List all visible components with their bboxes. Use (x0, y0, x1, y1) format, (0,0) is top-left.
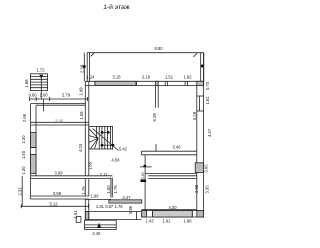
svg-text:0.87: 0.87 (105, 204, 114, 209)
svg-text:1.72: 1.72 (37, 68, 46, 73)
chimney box right (195, 163, 203, 173)
dim 2.40 (92, 231, 101, 236)
svg-text:1.86: 1.86 (184, 218, 193, 223)
porch arrow (97, 223, 101, 228)
svg-text:1.68: 1.68 (79, 111, 84, 120)
wall right room north band (148, 175, 197, 177)
dim chain right labels (194, 81, 212, 193)
svg-text:3.15: 3.15 (113, 75, 122, 80)
dim 5.42 (119, 147, 128, 152)
stair S2 beam upper (102, 131, 108, 133)
dim 1.88 (24, 79, 29, 88)
svg-text:2.39: 2.39 (79, 64, 84, 73)
dim 1.85 (87, 161, 92, 170)
svg-text:1.81: 1.81 (205, 96, 210, 105)
svg-text:1.96: 1.96 (91, 194, 100, 199)
svg-text:1.49: 1.49 (79, 87, 84, 96)
dim 4.58 (112, 158, 121, 163)
stair S2 winder box (89, 126, 113, 149)
dim tick 3.46 (155, 144, 157, 151)
dim tick right of 8.80 (193, 53, 197, 57)
svg-text:1.24: 1.24 (86, 75, 95, 80)
dim 2.11 (100, 172, 108, 177)
dim 4.30 with line (169, 205, 178, 210)
svg-text:4.03: 4.03 (78, 143, 83, 152)
svg-text:1.00: 1.00 (40, 93, 49, 98)
svg-text:3.46: 3.46 (173, 145, 182, 150)
svg-text:5.12: 5.12 (50, 202, 59, 207)
stair S1 direction line with arrow (40, 75, 42, 99)
stair S2 diagonal (93, 129, 119, 151)
dim line row 0.60 1.00 2.79 (30, 98, 88, 100)
svg-text:0.60: 0.60 (29, 93, 38, 98)
svg-text:1.60: 1.60 (21, 150, 26, 159)
wall right outer (196, 86, 198, 212)
svg-text:1.81: 1.81 (96, 204, 105, 209)
svg-text:2.18: 2.18 (142, 75, 151, 80)
svg-text:2.11: 2.11 (100, 172, 108, 177)
svg-text:1.51: 1.51 (165, 75, 174, 80)
svg-text:1.60: 1.60 (106, 185, 111, 194)
dim line 2.33 (21, 176, 23, 206)
dim line 2.39 left with dot (83, 53, 85, 82)
wall hall south y177 (31, 175, 113, 177)
wall left wing west (30, 104, 32, 199)
svg-text:0.70: 0.70 (205, 81, 210, 90)
dim 0.60 center tiny (141, 172, 145, 179)
svg-text:2.79: 2.79 (62, 93, 71, 98)
dim dot pier center (143, 165, 146, 168)
wall main left (84, 86, 86, 176)
window top 2.18 (136, 81, 138, 85)
dim 1.68 (79, 111, 84, 120)
pier at interior wall (155, 81, 158, 85)
pier bottom right corner (197, 211, 204, 217)
dim 1.75 near main wall (81, 186, 86, 195)
svg-text:1.88: 1.88 (24, 79, 29, 88)
wire veranda top line (87, 52, 204, 54)
svg-text:2.40: 2.40 (92, 231, 101, 236)
window top 1.92 jambs (184, 81, 186, 85)
dim 6.29 (152, 113, 157, 122)
dim chain west labels (18, 113, 28, 195)
window bottom right gray (152, 211, 154, 217)
svg-text:1.30: 1.30 (21, 166, 26, 175)
wall veranda right (200, 53, 202, 82)
window west gap jambs (31, 147, 36, 149)
stair S2 steps vertical (96, 126, 98, 138)
stair S2 beam lower (102, 144, 113, 146)
partition hall x111 (110, 178, 112, 198)
svg-text:2.98: 2.98 (194, 184, 199, 193)
pier bottom left corner (85, 212, 89, 220)
wall veranda left (86, 53, 88, 82)
wall bottom center band (85, 211, 141, 213)
corner block top right (197, 81, 204, 85)
window top 3.15 gray (95, 81, 136, 85)
dim 1.24 (86, 75, 95, 80)
svg-text:1.92: 1.92 (184, 75, 193, 80)
svg-text:0.60: 0.60 (204, 164, 209, 173)
wall hatch west 1 (31, 133, 36, 148)
dim line 1.96 (85, 198, 111, 200)
svg-text:0.96: 0.96 (128, 205, 133, 214)
dim 1.72 (37, 68, 46, 73)
svg-text:1.79: 1.79 (115, 204, 124, 209)
svg-text:4.58: 4.58 (112, 158, 121, 163)
wall right room north thin (145, 173, 197, 175)
svg-text:4.47: 4.47 (207, 128, 212, 137)
svg-text:1.85: 1.85 (87, 161, 92, 170)
svg-text:5.29: 5.29 (192, 111, 197, 120)
svg-text:3.99: 3.99 (55, 171, 64, 176)
wall hall west (84, 179, 86, 196)
svg-text:2.33: 2.33 (18, 187, 23, 196)
svg-text:1.30: 1.30 (21, 135, 26, 144)
wall hall south band gray (109, 200, 142, 203)
dim tick left of 8.80 (91, 53, 95, 56)
dim 3.46 (173, 145, 182, 150)
window right jambs (197, 95, 204, 97)
wall bottom right band (142, 210, 205, 212)
svg-text:1-й этаж: 1-й этаж (103, 3, 130, 11)
stair S2 winder fan (89, 129, 98, 139)
dim row 1.43 1.91 1.86 (146, 218, 193, 223)
dim 5.29 (192, 111, 197, 120)
dim 1.51 (73, 210, 78, 219)
wall interior x157 (154, 86, 156, 108)
dim row 1.81 0.87 1.79 (96, 204, 133, 214)
room label 3.90 (55, 119, 64, 124)
wall center south y151 (142, 150, 197, 152)
door jamb bottom (88, 212, 90, 220)
dim 1.60 (106, 185, 111, 194)
dim 4.03 (78, 143, 83, 152)
pier corner center (142, 211, 147, 217)
svg-text:1.91: 1.91 (163, 218, 172, 223)
stair S1 exterior top-left (30, 74, 47, 91)
room label 3.99 upper (55, 171, 64, 176)
dim 1.49 (79, 87, 84, 96)
dim 8.80 top (155, 46, 164, 51)
dim row top windows (113, 75, 193, 80)
svg-text:3.50: 3.50 (205, 185, 210, 194)
dim 1.75 right of partition (113, 185, 118, 194)
svg-text:1.43: 1.43 (146, 218, 155, 223)
title 1-й этаж (103, 3, 130, 11)
svg-text:2.47: 2.47 (123, 195, 132, 200)
wall main top band (85, 80, 204, 82)
wall hatch west 2 (31, 155, 36, 174)
porch steps bottom (85, 220, 117, 229)
wall left wing top (31, 103, 86, 105)
door opening top-left jambs (84, 81, 86, 85)
dim 1.96 2.47 row (91, 194, 132, 201)
wall left wing south (31, 195, 89, 197)
svg-text:0.60: 0.60 (141, 172, 145, 179)
svg-text:5.42: 5.42 (119, 147, 128, 152)
dim line 5.12 (21, 205, 88, 207)
porch step box left (76, 217, 81, 223)
svg-text:1.51: 1.51 (73, 210, 78, 219)
svg-text:3.90: 3.90 (55, 119, 64, 124)
svg-text:1.75: 1.75 (113, 185, 118, 194)
wall step left of porch (84, 199, 86, 212)
wall interior y124 (31, 121, 89, 123)
room label 3.99 lower (53, 191, 62, 196)
dim dot right veranda (201, 65, 204, 68)
svg-text:6.29: 6.29 (152, 113, 157, 122)
svg-text:8.80: 8.80 (155, 46, 164, 51)
svg-text:3.99: 3.99 (53, 191, 62, 196)
pier block center black (141, 179, 147, 182)
svg-text:4.30: 4.30 (169, 205, 178, 210)
window top 1.51 jambs (164, 81, 166, 85)
svg-text:2.68: 2.68 (22, 113, 27, 122)
